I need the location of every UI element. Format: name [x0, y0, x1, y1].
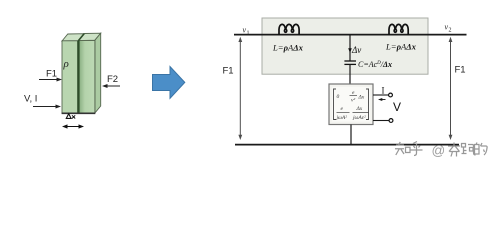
current arrow (left): [378, 98, 386, 101]
V,I arrow: [33, 105, 61, 109]
svg-text:C=AcD/Δx: C=AcD/Δx: [358, 60, 392, 69]
middle vertical wire (cap to box): [349, 65, 351, 85]
width double arrow: [62, 124, 84, 128]
label delta-x under slab: [66, 114, 75, 119]
svg-text:F1: F1: [455, 65, 466, 76]
divider top line: [78, 34, 84, 41]
svg-text:Δx: Δx: [358, 95, 365, 101]
delta-v arrow on wire: [348, 48, 352, 53]
奔: [448, 143, 460, 157]
svg-text:I: I: [382, 86, 385, 96]
inductor L1: [279, 24, 299, 34]
bottom front edge: [62, 112, 96, 114]
svg-text:Δv: Δv: [351, 45, 361, 55]
divider dark line (front): [77, 41, 79, 114]
的: [475, 143, 488, 156]
svg-text:F1: F1: [46, 69, 57, 80]
乎: [411, 142, 423, 156]
跑: [462, 144, 476, 156]
terminal circle top: [389, 93, 393, 97]
svg-text:@: @: [432, 143, 446, 158]
top wire: [234, 34, 467, 36]
slab B right side face: [95, 33, 101, 113]
svg-text:jωA²: jωA²: [336, 115, 348, 121]
matrix box: [329, 84, 373, 125]
inductor L2: [389, 24, 408, 34]
svg-text:2: 2: [449, 28, 452, 34]
F1 arrow: [39, 78, 62, 82]
terminal wire top (I): [373, 94, 389, 96]
svg-text:L=ρAΔx: L=ρAΔx: [272, 43, 304, 53]
svg-text:v²: v²: [351, 98, 355, 104]
svg-text:F1: F1: [223, 66, 234, 77]
知: [395, 142, 410, 155]
F2 arrow: [102, 84, 120, 88]
svg-text:V, I: V, I: [24, 94, 37, 105]
matrix entries: [336, 90, 366, 121]
right force arrow (double headed vertical): [449, 37, 453, 140]
matrix fraction bars: [337, 96, 370, 113]
svg-text:0: 0: [337, 94, 340, 100]
svg-text:jωAε²: jωAε²: [352, 115, 366, 121]
slab B front face (shaded near divider): [79, 41, 95, 114]
bottom wire: [235, 144, 459, 146]
svg-text:V: V: [393, 100, 401, 114]
svg-text:F2: F2: [107, 74, 118, 85]
matrix brackets: [334, 89, 337, 120]
slab B top face: [79, 33, 101, 40]
left force arrow (double headed vertical): [238, 37, 242, 140]
capacitor C: [344, 60, 356, 62]
terminal wire bottom: [373, 120, 389, 122]
svg-text:L=ρAΔx: L=ρAΔx: [385, 42, 417, 52]
wire box to bottom: [350, 125, 352, 145]
svg-text:Δx: Δx: [356, 106, 363, 112]
middle vertical wire (top): [349, 35, 351, 61]
grey panel: [262, 18, 428, 74]
slab A front face: [62, 41, 78, 113]
watermark: 知乎 @奔跑的: [395, 142, 487, 157]
svg-text:ρ: ρ: [63, 58, 69, 70]
terminal circle bottom: [389, 119, 393, 123]
svg-text:1: 1: [247, 31, 250, 37]
slab A top face: [62, 34, 84, 41]
